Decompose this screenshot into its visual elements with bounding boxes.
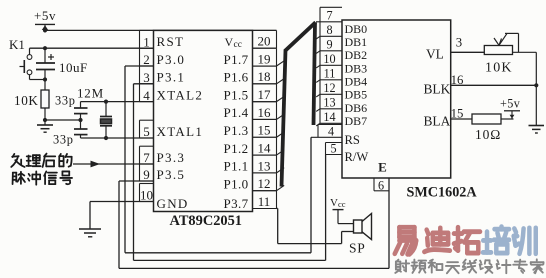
svg-text:cc: cc <box>338 199 346 209</box>
svg-text:P1.3: P1.3 <box>224 123 249 138</box>
svg-text:SMC1602A: SMC1602A <box>407 185 478 201</box>
svg-text:10: 10 <box>140 188 153 203</box>
svg-text:10K: 10K <box>485 61 513 76</box>
svg-text:P3.1: P3.1 <box>157 70 186 85</box>
svg-text:BLK: BLK <box>424 82 451 97</box>
wire XTAL2 net <box>81 100 154 104</box>
svg-text:R/W: R/W <box>345 150 369 164</box>
resistor R2 10Ω <box>472 114 514 142</box>
svg-text:DB5: DB5 <box>345 88 368 102</box>
svg-text:6: 6 <box>378 178 384 192</box>
pin numbers DB (SMC1602A left) <box>320 7 342 124</box>
svg-text:GND: GND <box>157 196 189 211</box>
svg-text:DB6: DB6 <box>345 101 368 115</box>
svg-text:13: 13 <box>323 96 335 110</box>
svg-text:cc: cc <box>234 40 242 50</box>
svg-text:DB2: DB2 <box>345 48 368 62</box>
bus entries (LCD side) <box>316 36 320 126</box>
svg-text:10K: 10K <box>14 93 39 108</box>
pin 3 VL lead <box>451 36 485 53</box>
svg-text:10: 10 <box>323 52 335 66</box>
capacitor C1 10uF <box>36 48 88 90</box>
ground (reset network) <box>37 108 53 132</box>
svg-text:1: 1 <box>143 34 150 49</box>
watermark line 1 (易迪拓培训) <box>395 227 536 255</box>
crystal Y1 12M <box>77 86 112 139</box>
wire XTAL1 net <box>81 136 154 140</box>
svg-text:11: 11 <box>258 194 271 209</box>
svg-text:P1.4: P1.4 <box>224 105 249 120</box>
ground (chip GND) <box>79 229 101 237</box>
svg-text:10Ω: 10Ω <box>475 127 501 142</box>
pin 6 E (SMC1602A) <box>374 160 389 193</box>
svg-text:19: 19 <box>258 51 271 66</box>
node pulse input (处理后的脉冲信号) <box>11 154 72 185</box>
svg-text:33p: 33p <box>55 94 76 108</box>
svg-text:16: 16 <box>258 105 272 120</box>
svg-text:17: 17 <box>258 87 272 102</box>
svg-text:AT89C2051: AT89C2051 <box>170 213 243 229</box>
bus P1 to DB0-DB7 <box>282 22 316 186</box>
svg-text:33p: 33p <box>53 133 74 147</box>
svg-text:14: 14 <box>258 140 272 155</box>
svg-text:P3.0: P3.0 <box>157 52 186 67</box>
svg-text:8: 8 <box>326 23 332 37</box>
svg-text:9: 9 <box>326 38 332 52</box>
pin numbers right (AT89C2051) <box>253 30 277 209</box>
speaker SP <box>349 214 372 256</box>
pin labels (AT89C2051) <box>157 34 249 211</box>
wire 33p midpoint to ground <box>45 118 83 122</box>
svg-text:P1.7: P1.7 <box>224 52 249 67</box>
wire BLK to ground <box>535 52 537 125</box>
svg-text:12: 12 <box>258 176 271 191</box>
pin 7 lead (DB0) <box>316 21 320 23</box>
svg-text:12M: 12M <box>77 86 104 101</box>
svg-text:3: 3 <box>456 36 462 50</box>
svg-text:20: 20 <box>258 34 271 49</box>
watermark line 2 (射频和天线设计专家) <box>395 259 543 273</box>
svg-text:15: 15 <box>258 123 271 138</box>
capacitor C2 33p <box>55 94 88 121</box>
svg-text:3: 3 <box>143 70 150 85</box>
pin 16 BLK lead <box>451 73 539 87</box>
svg-text:4: 4 <box>143 88 150 103</box>
svg-text:7: 7 <box>143 150 150 165</box>
capacitor C3 33p <box>53 120 88 147</box>
wire RST node to pin 1 <box>30 46 154 50</box>
wire GND pin 10 <box>90 202 154 230</box>
svg-text:E: E <box>378 160 387 175</box>
svg-text:10uF: 10uF <box>59 60 88 75</box>
wire P3.0 to R/W <box>125 66 311 253</box>
+5v supply symbol <box>34 8 56 30</box>
svg-text:11: 11 <box>324 67 336 81</box>
svg-text:K1: K1 <box>9 37 25 52</box>
power rail +5V net <box>43 28 277 32</box>
svg-text:5: 5 <box>330 141 336 155</box>
pin 15 BLA lead <box>451 107 472 121</box>
svg-text:XTAL2: XTAL2 <box>157 87 204 102</box>
wire P3.1 to RS <box>134 84 326 261</box>
svg-text:SP: SP <box>349 241 366 256</box>
resistor R1 10K <box>14 90 49 108</box>
wire P3.5 to LCD E <box>119 178 389 268</box>
svg-text:DB3: DB3 <box>345 61 368 75</box>
potentiometer RP1 10K <box>484 33 536 75</box>
pin labels DB0-DB7 <box>345 22 368 128</box>
svg-text:RST: RST <box>157 34 185 49</box>
Vcc symbol (speaker supply) <box>330 197 354 224</box>
pin 4 RS (SMC1602A) <box>311 124 360 147</box>
svg-text:4: 4 <box>328 124 334 138</box>
svg-text:+5v: +5v <box>500 97 521 111</box>
pin labels VL BLK BLA <box>424 47 451 129</box>
svg-text:P1.0: P1.0 <box>224 177 249 192</box>
pin 5 R/W (SMC1602A) <box>326 141 369 164</box>
svg-text:BLA: BLA <box>424 114 451 129</box>
+5v supply (backlight) <box>500 97 521 120</box>
pin numbers left (AT89C2051) <box>140 30 154 202</box>
svg-text:7: 7 <box>326 9 332 23</box>
svg-text:P3.7: P3.7 <box>224 196 249 211</box>
svg-text:P1.1: P1.1 <box>224 159 249 174</box>
svg-text:P1.6: P1.6 <box>224 70 249 85</box>
wire pulse signal to P3.3 with arrow <box>73 161 154 168</box>
svg-text:XTAL1: XTAL1 <box>157 124 204 139</box>
svg-text:P1.5: P1.5 <box>224 87 249 102</box>
svg-text:DB0: DB0 <box>345 22 368 36</box>
svg-text:V: V <box>225 35 234 49</box>
svg-text:2: 2 <box>143 52 150 67</box>
svg-text:5: 5 <box>143 124 150 139</box>
svg-text:9: 9 <box>143 167 150 182</box>
svg-text:DB7: DB7 <box>345 114 368 128</box>
switch K1 <box>9 37 47 82</box>
svg-text:VL: VL <box>426 47 444 62</box>
svg-text:P3.5: P3.5 <box>157 167 186 182</box>
svg-text:V: V <box>330 197 338 209</box>
svg-text:RS: RS <box>345 133 360 147</box>
wire P3.7 to speaker <box>277 208 354 243</box>
bus entries (chip side) <box>277 61 285 191</box>
LCD U2 SMC1602A body <box>342 20 477 201</box>
svg-text:DB1: DB1 <box>345 35 368 49</box>
svg-text:12: 12 <box>323 81 335 95</box>
svg-text:13: 13 <box>258 158 271 173</box>
svg-text:P3.3: P3.3 <box>157 150 186 165</box>
svg-text:DB4: DB4 <box>345 75 368 89</box>
svg-text:+5v: +5v <box>34 8 56 23</box>
ground (LCD backlight) <box>529 126 545 134</box>
svg-text:18: 18 <box>258 69 271 84</box>
svg-text:14: 14 <box>323 110 335 124</box>
IC U1 AT89C2051 body <box>154 30 253 229</box>
svg-text:P1.2: P1.2 <box>224 141 249 156</box>
